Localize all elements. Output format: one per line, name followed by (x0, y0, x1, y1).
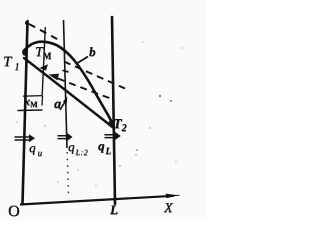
label q_L2 (68, 139, 88, 155)
label a (54, 97, 61, 113)
label b (89, 44, 96, 60)
node small leader arrowhead to line a (40, 64, 49, 70)
wire x_M vertical line (42, 27, 45, 95)
node heat flux arrow q_L2 (58, 133, 73, 141)
label L (110, 202, 118, 218)
wire short dash on leader line (63, 70, 69, 72)
wire left wall line (23, 21, 28, 204)
node x_M bracket right tick (41, 96, 44, 106)
wire dashed tangent D2 (64, 62, 125, 89)
wire middle vertical line L/2 solid (64, 20, 68, 148)
node junction blob at T2 (109, 120, 115, 127)
node b label tick (78, 57, 89, 64)
label TM (35, 45, 51, 61)
node arrowhead of D3 (49, 74, 60, 81)
node x_M bracket bottom line (18, 109, 43, 112)
node heat flux arrow q_L (105, 132, 121, 140)
label q_u (29, 140, 42, 156)
wire dashed line from top of wall D1 (29, 24, 58, 40)
label X axis (164, 201, 173, 217)
wire dashed tangent D3 with left arrowhead (58, 79, 112, 100)
label T2 (113, 117, 127, 133)
label q_L (98, 138, 111, 154)
curve b temperature profile (24, 42, 113, 125)
node heat flux arrow q_u (15, 134, 36, 142)
node top of left wall (25, 21, 29, 25)
node x_M bracket top line (23, 95, 43, 98)
label O origin (8, 203, 20, 221)
node junction blob at T1 wall (22, 49, 27, 55)
node a label tick (60, 101, 66, 111)
label T1 (3, 54, 19, 71)
wire right wall line (112, 17, 115, 204)
line a straight profile (24, 58, 113, 128)
label xM (24, 94, 38, 109)
wire X axis (20, 196, 174, 205)
node axis arrowhead (166, 194, 179, 199)
speckle dots (16, 42, 182, 187)
wire middle vertical dotted continuation (67, 152, 69, 197)
